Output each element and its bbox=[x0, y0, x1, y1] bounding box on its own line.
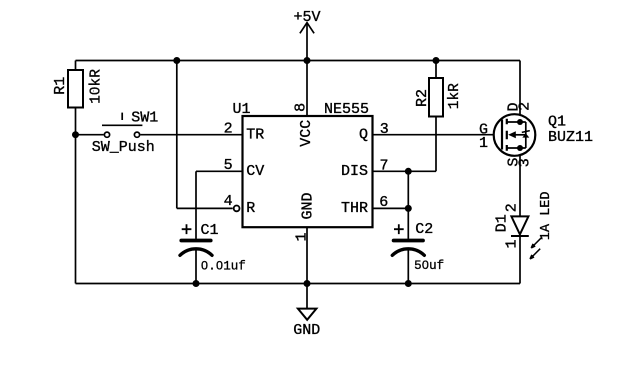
svg-text:R1: R1 bbox=[52, 77, 69, 95]
svg-text:2: 2 bbox=[517, 102, 534, 111]
node C1 bottom junction bbox=[193, 280, 200, 287]
svg-text:Q: Q bbox=[359, 127, 368, 144]
wire switch right to pin 2 bbox=[140, 134, 242, 136]
svg-text:R: R bbox=[246, 200, 255, 217]
svg-text:0.01uf: 0.01uf bbox=[201, 259, 246, 273]
svg-text:+5V: +5V bbox=[294, 9, 321, 26]
svg-text:DIS: DIS bbox=[341, 163, 368, 180]
wire R2 bottom stem bbox=[435, 117, 437, 172]
wire DIS-THR link bbox=[407, 171, 409, 208]
svg-text:SW_Push: SW_Push bbox=[92, 139, 155, 156]
wire right rail mid bbox=[519, 148, 521, 217]
node +5V junction bbox=[304, 57, 311, 64]
svg-text:SW1: SW1 bbox=[131, 110, 158, 127]
IC U1 NE555 timer body bbox=[233, 101, 373, 227]
wire reset net vertical bbox=[176, 61, 178, 209]
source tap bbox=[507, 147, 526, 149]
capacitor C2 bbox=[392, 221, 444, 273]
node reset net junction bbox=[173, 57, 180, 64]
wire R2 to DIS node bbox=[408, 170, 436, 172]
wire pin 7 DIS bbox=[373, 170, 409, 172]
drain tap bbox=[507, 121, 526, 123]
wire pin 5 CV horizontal bbox=[196, 170, 243, 172]
ground symbol bbox=[293, 309, 320, 339]
wire right rail lower bbox=[519, 236, 521, 283]
svg-text:TR: TR bbox=[246, 127, 264, 144]
transistor Q1 BUZ11 MOSFET bbox=[479, 102, 593, 167]
+5V power symbol bbox=[294, 9, 321, 33]
wire bottom rail bbox=[76, 283, 521, 285]
svg-text:3: 3 bbox=[517, 158, 534, 167]
pin 3 Q bbox=[359, 121, 389, 144]
resistor R2 bbox=[414, 78, 463, 117]
switch SW1 bbox=[92, 110, 159, 157]
svg-text:C2: C2 bbox=[415, 221, 433, 238]
svg-text:1A LED: 1A LED bbox=[539, 191, 554, 240]
wire pin 1 stem bbox=[306, 227, 308, 283]
diode D1 LED bbox=[494, 191, 555, 258]
svg-text:3: 3 bbox=[380, 121, 389, 138]
svg-text:10kR: 10kR bbox=[89, 69, 105, 104]
pin 5 CV bbox=[224, 157, 265, 180]
svg-text:BUZ11: BUZ11 bbox=[548, 129, 593, 146]
node DIS junction bbox=[405, 168, 412, 175]
svg-text:THR: THR bbox=[341, 200, 368, 217]
svg-text:6: 6 bbox=[379, 194, 388, 211]
wire C2 bottom bbox=[407, 250, 409, 284]
svg-text:1: 1 bbox=[294, 232, 311, 241]
resistor R1 bbox=[52, 69, 105, 108]
svg-text:2: 2 bbox=[504, 203, 521, 212]
wire +5V stem / pin 8 stem bbox=[306, 23, 308, 116]
pin 1 GND bbox=[294, 192, 317, 241]
wire pin 3 Q to gate bbox=[373, 134, 503, 136]
wire R2 top stem bbox=[435, 61, 437, 79]
svg-text:VCC: VCC bbox=[298, 120, 315, 147]
wire gnd stem bbox=[306, 284, 308, 309]
svg-text:C1: C1 bbox=[201, 222, 219, 239]
svg-text:Q1: Q1 bbox=[548, 114, 566, 131]
pin 4 R inverted bbox=[224, 193, 256, 217]
node GND junction bbox=[304, 280, 311, 287]
channel segments bbox=[506, 119, 508, 151]
svg-text:5: 5 bbox=[224, 157, 233, 174]
svg-text:GND: GND bbox=[293, 322, 320, 339]
svg-text:7: 7 bbox=[380, 157, 389, 174]
pin 7 DIS bbox=[341, 157, 389, 180]
node C2 bottom junction bbox=[405, 280, 412, 287]
node R2 top junction bbox=[433, 57, 440, 64]
svg-text:R2: R2 bbox=[414, 89, 431, 107]
capacitor C1 bbox=[180, 222, 246, 273]
wire THR to C2 bbox=[407, 208, 409, 239]
wire right rail upper bbox=[519, 61, 521, 123]
wire left rail upper bbox=[75, 61, 77, 71]
svg-text:1kR: 1kR bbox=[447, 83, 463, 109]
node THR junction bbox=[405, 205, 412, 212]
node drain dot bbox=[517, 119, 523, 125]
svg-text:GND: GND bbox=[299, 192, 316, 219]
wire left rail lower bbox=[75, 108, 77, 284]
node source dot bbox=[517, 145, 523, 151]
wire switch left bbox=[76, 134, 104, 136]
svg-text:50uf: 50uf bbox=[414, 259, 444, 273]
svg-text:4: 4 bbox=[224, 193, 233, 210]
svg-text:D1: D1 bbox=[494, 214, 511, 232]
svg-text:8: 8 bbox=[292, 103, 309, 112]
wire top rail bbox=[76, 60, 521, 62]
pin 8 VCC bbox=[292, 103, 315, 147]
pin 6 THR bbox=[341, 194, 388, 217]
wire pin 6 THR bbox=[373, 207, 409, 209]
node switch junction bbox=[72, 131, 79, 138]
svg-text:CV: CV bbox=[246, 163, 264, 180]
wire C1 bottom bbox=[195, 250, 197, 284]
pin 2 TR bbox=[224, 121, 265, 144]
wire CV to C1 vertical bbox=[195, 171, 197, 239]
svg-text:NE555: NE555 bbox=[324, 101, 369, 118]
svg-text:2: 2 bbox=[224, 121, 233, 138]
body diode vertical bbox=[525, 122, 527, 148]
svg-text:U1: U1 bbox=[233, 101, 251, 118]
zero-glyph dot masks bbox=[94, 90, 427, 267]
svg-text:1: 1 bbox=[504, 239, 521, 248]
body diode symbol bbox=[522, 133, 529, 137]
wire reset net horizontal to pin 4 bbox=[177, 207, 233, 209]
emission arrows bbox=[531, 238, 541, 248]
gate bar bbox=[501, 120, 503, 150]
svg-text:1: 1 bbox=[479, 135, 488, 152]
body arrow bbox=[508, 131, 516, 138]
